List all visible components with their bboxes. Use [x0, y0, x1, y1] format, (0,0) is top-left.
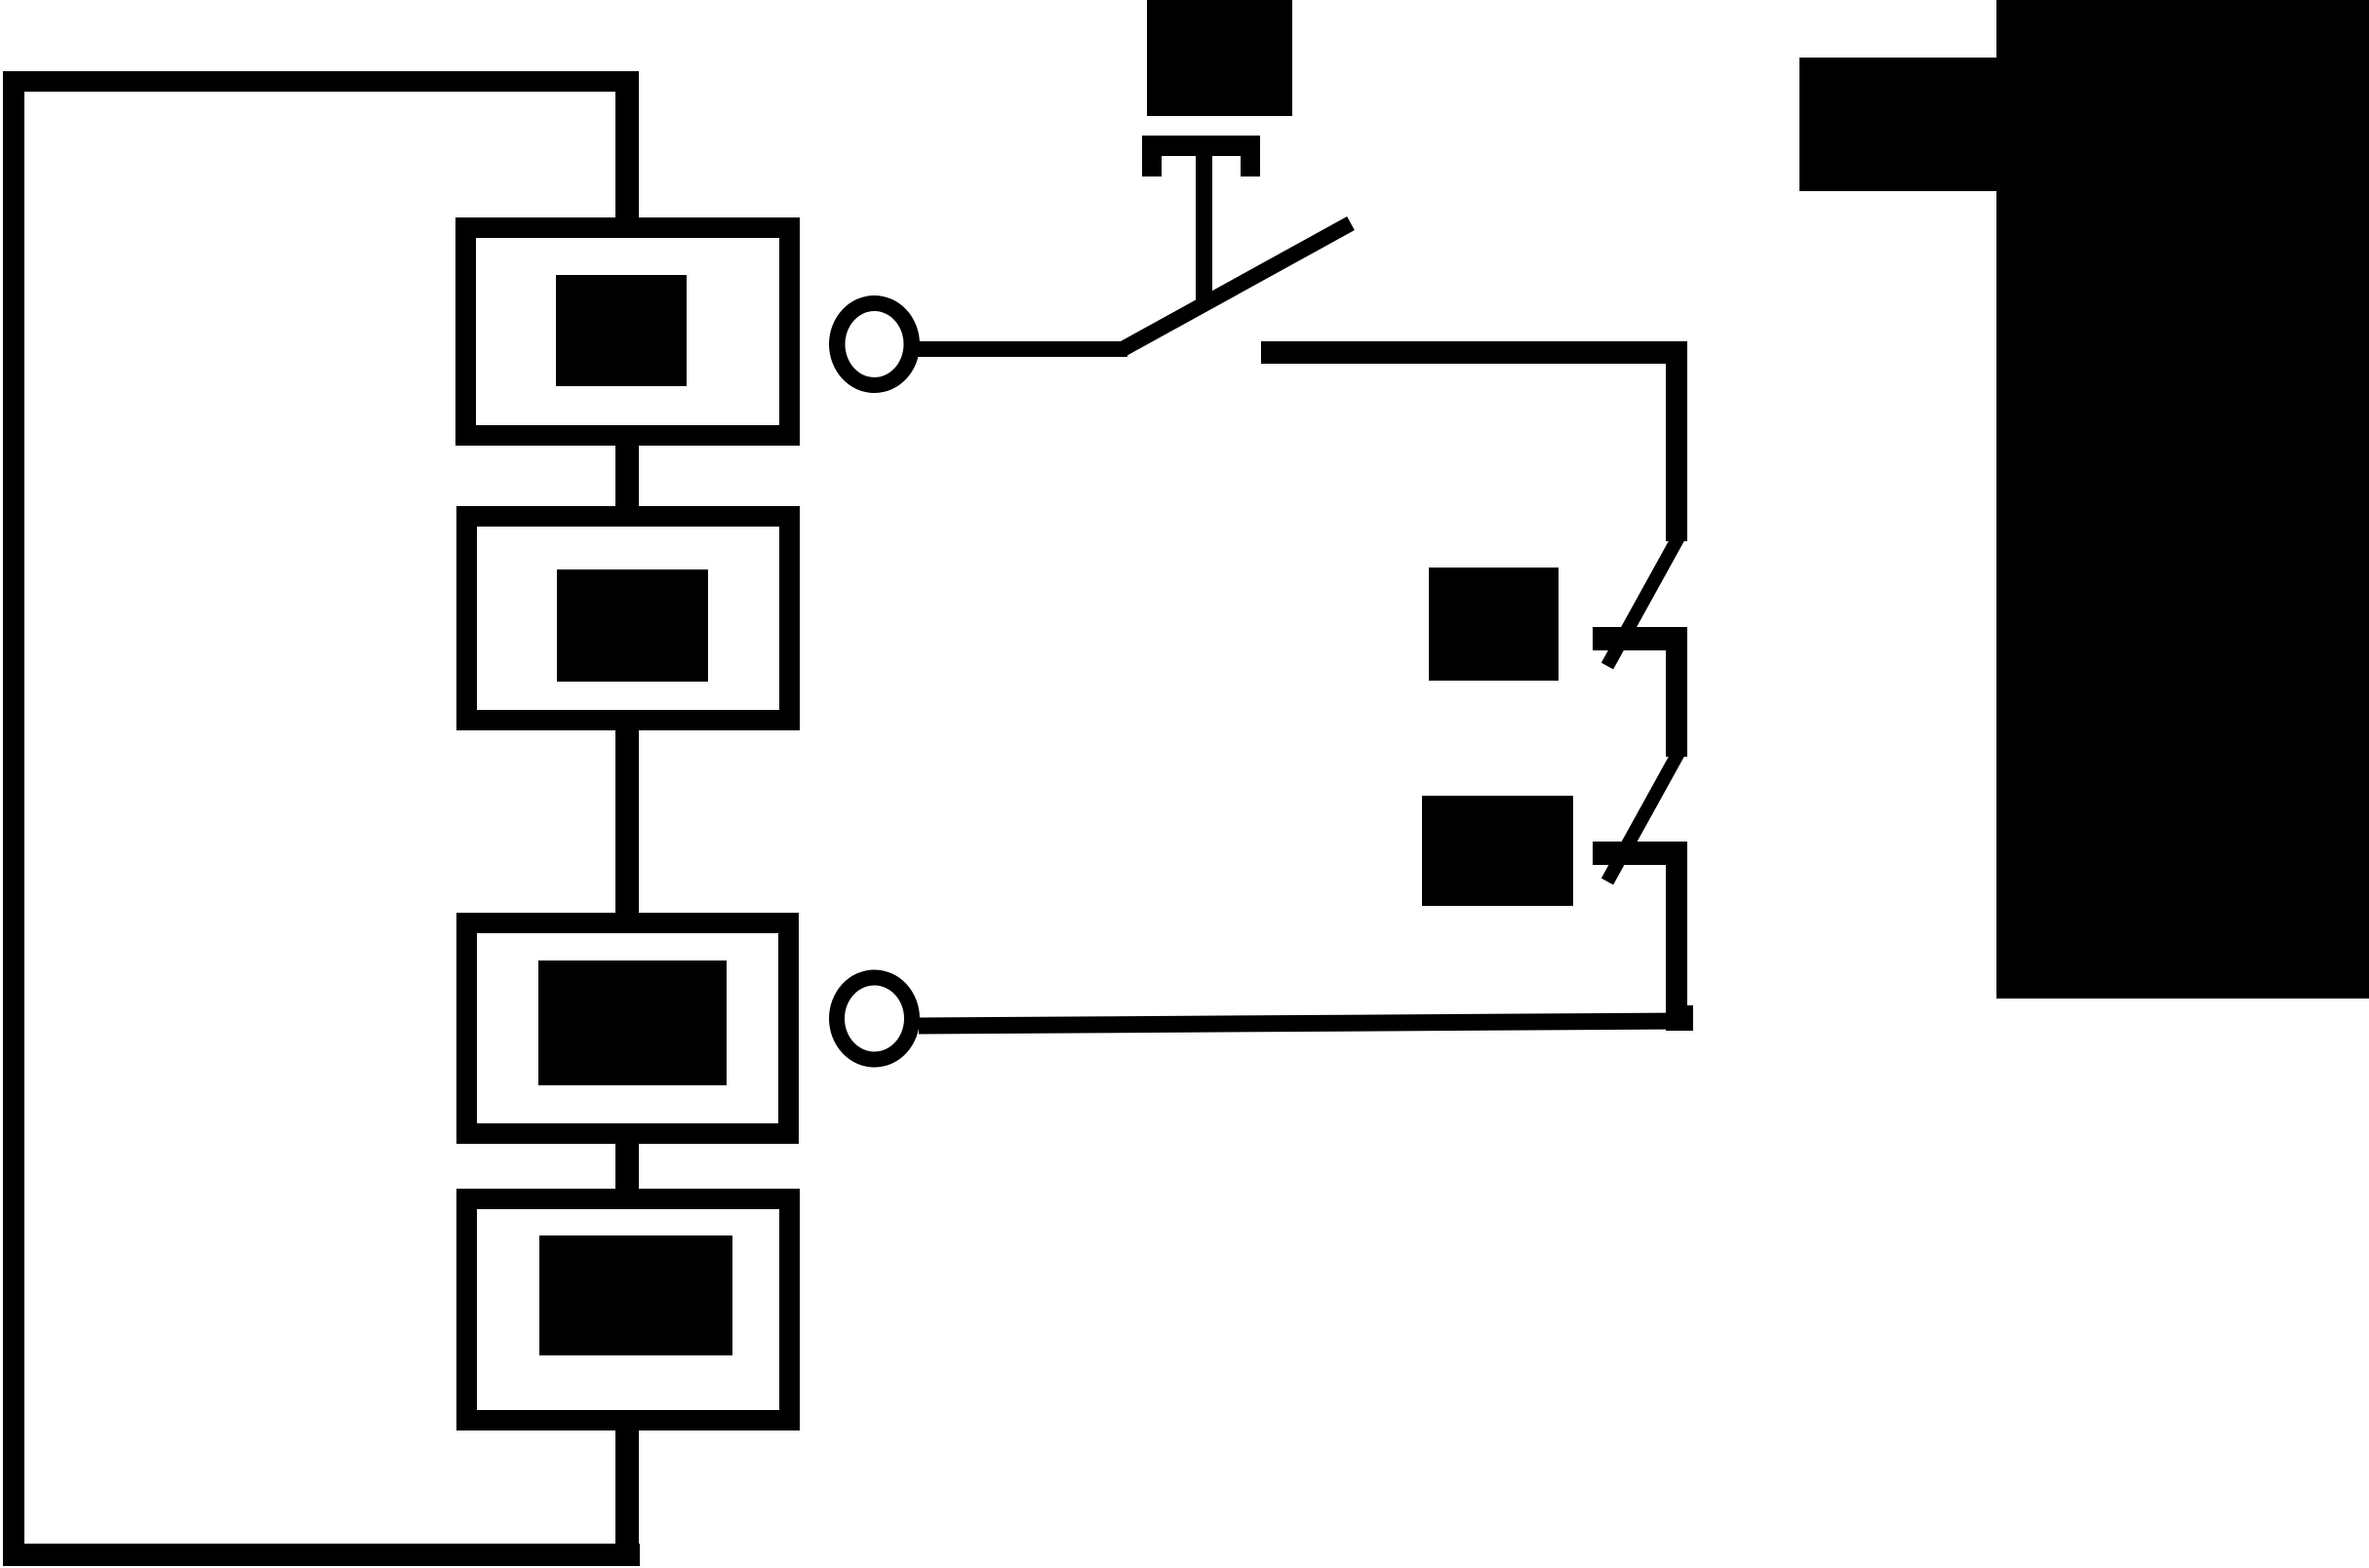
redacted block: small annotation [1799, 58, 1996, 191]
label plate B2 (redacted) [557, 569, 708, 682]
wire: segment between box B2 and box B3 [615, 722, 639, 922]
wire: segment between box B1 and box B2 [615, 439, 639, 517]
component box B3 [456, 913, 799, 1144]
wire: left loop bottom horizontal [3, 1544, 640, 1566]
wire: right branch vertical segment 2 [1666, 644, 1687, 757]
wire: bottom return lead from terminal B to right branch [919, 1021, 1686, 1026]
terminal B (open circle) at box B3 [829, 970, 920, 1068]
switch S3 movable blade [1607, 753, 1678, 882]
wire: left loop top horizontal [3, 71, 639, 92]
switch S1 fixed contact lead [1261, 341, 1687, 364]
redacted block: large title area [1996, 0, 2369, 999]
label (redacted) near switch S3 [1422, 796, 1573, 906]
switch S1 movable blade [1123, 223, 1351, 349]
wire: series chain segment from top loop to box B1 [615, 71, 639, 228]
switch S2 movable blade [1607, 537, 1678, 666]
label plate B3 (redacted) [538, 960, 727, 1085]
wire: lead from terminal A to switch S1 pivot [915, 341, 1127, 357]
wire: left loop left vertical [3, 71, 24, 1565]
switch S2 fixed contact bar [1593, 627, 1687, 650]
wire: segment between box B3 and box B4 [615, 1136, 639, 1198]
component box B1 [455, 217, 800, 446]
push-button switch S1: actuator T-bar [1142, 136, 1260, 156]
component box B2 [456, 506, 800, 730]
label plate B4 (redacted) [539, 1235, 732, 1355]
push-button switch S1: plunger stem [1196, 154, 1212, 300]
wire: right branch vertical segment 3 [1666, 858, 1687, 1030]
push-button switch S1: actuator cap (redacted label) [1147, 0, 1292, 116]
label (redacted) near switch S2 [1429, 568, 1559, 681]
wire: right branch vertical segment 1 [1666, 341, 1687, 541]
switch S3 fixed contact bar [1593, 842, 1687, 865]
label plate B1 (redacted) [556, 275, 687, 386]
terminal A (open circle) at box B1 [829, 295, 920, 393]
component box B4 [456, 1189, 800, 1431]
wire: segment from box B4 to bottom loop [615, 1422, 639, 1565]
